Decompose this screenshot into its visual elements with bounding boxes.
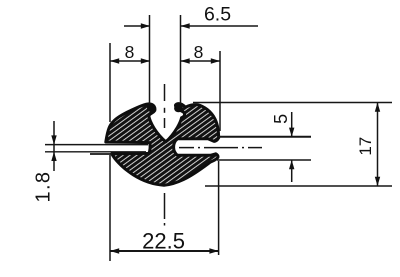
extension line at top slot left x=149.5 bbox=[149, 15, 151, 104]
svg-text:6.5: 6.5 bbox=[204, 4, 231, 26]
right lip knob of top slot bbox=[174, 104, 183, 112]
left lip knob of top slot bbox=[147, 104, 155, 112]
svg-text:8: 8 bbox=[125, 42, 135, 62]
extension line at profile top y=102.5 bbox=[193, 102, 392, 104]
extension line at top slot right x=180.5 bbox=[180, 15, 182, 104]
horizontal centerline of side slot bbox=[179, 147, 262, 149]
extension line at side slot bottom edge y=160 bbox=[217, 159, 311, 161]
dimension 6.5 (top slot width, outside arrows) bbox=[124, 25, 258, 27]
svg-text:5: 5 bbox=[271, 114, 291, 124]
svg-text:8: 8 bbox=[194, 42, 204, 62]
dimension 8 (left side to slot) bbox=[110, 60, 150, 62]
svg-text:17: 17 bbox=[356, 137, 375, 156]
svg-text:22.5: 22.5 bbox=[142, 228, 185, 253]
extension line at profile left tangent x=110 bbox=[109, 43, 111, 261]
vertical centerline of profile bbox=[164, 84, 166, 226]
extension line at side slot top edge y=136.8 bbox=[219, 136, 312, 138]
clamped sheet edge lines (1.8 thick panel) bbox=[45, 145, 148, 154]
dimension 22.5 (overall width) bbox=[110, 250, 219, 252]
dimension 8 (slot to right side) bbox=[181, 60, 221, 62]
dimension 5 (side slot opening, outside arrows) bbox=[291, 112, 293, 182]
dimension 17 (overall height) bbox=[377, 103, 379, 187]
svg-text:1.8: 1.8 bbox=[33, 171, 55, 203]
dimension 1.8 (sheet thickness, outside arrows) bbox=[53, 121, 55, 171]
extension line at profile bottom y=186 bbox=[205, 185, 392, 187]
profile body cross-section (hatched rubber extrusion) bbox=[106, 104, 219, 186]
extension line at profile right tangent x=220 bbox=[219, 51, 220, 255]
